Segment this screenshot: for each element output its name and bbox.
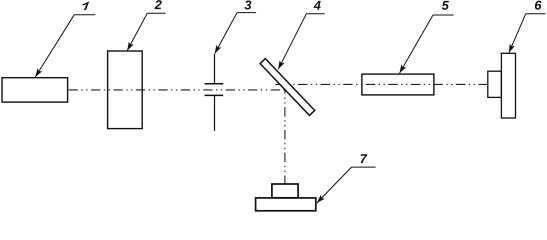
component 2: modulator cell (tall rectangle) [108, 51, 143, 129]
label 1 [82, 1, 89, 10]
label 6 [535, 1, 542, 10]
optical axis: left horizontal dash-dot-dot segment [69, 89, 286, 91]
component 4: tilted beamsplitter mirror [260, 59, 315, 116]
label 7 [361, 154, 368, 163]
leader line for label 5 [400, 15, 454, 73]
label 5 [442, 1, 449, 10]
optical axis: vertical dash-dot-dot segment to detector 7 [284, 84, 286, 183]
leader line for label 6 [509, 14, 546, 53]
component 6: photodetector (window + body) [488, 71, 502, 97]
leader line for label 1 [35, 15, 95, 77]
label 3 [245, 0, 252, 9]
optical axis: right horizontal dash-dot-dot segment [276, 83, 488, 85]
component 7: detector on pedestal [272, 184, 298, 198]
leader line for label 7 [317, 167, 376, 203]
leader line for label 3 [215, 13, 256, 54]
component 3: diaphragm / aperture [205, 54, 224, 131]
label 2 [155, 0, 162, 9]
component 5: analyzer rectangle [362, 74, 434, 95]
label 4 [314, 1, 321, 10]
component 1: laser source rectangle [2, 78, 68, 102]
leader line for label 2 [127, 13, 165, 50]
leader line for label 4 [278, 14, 325, 70]
